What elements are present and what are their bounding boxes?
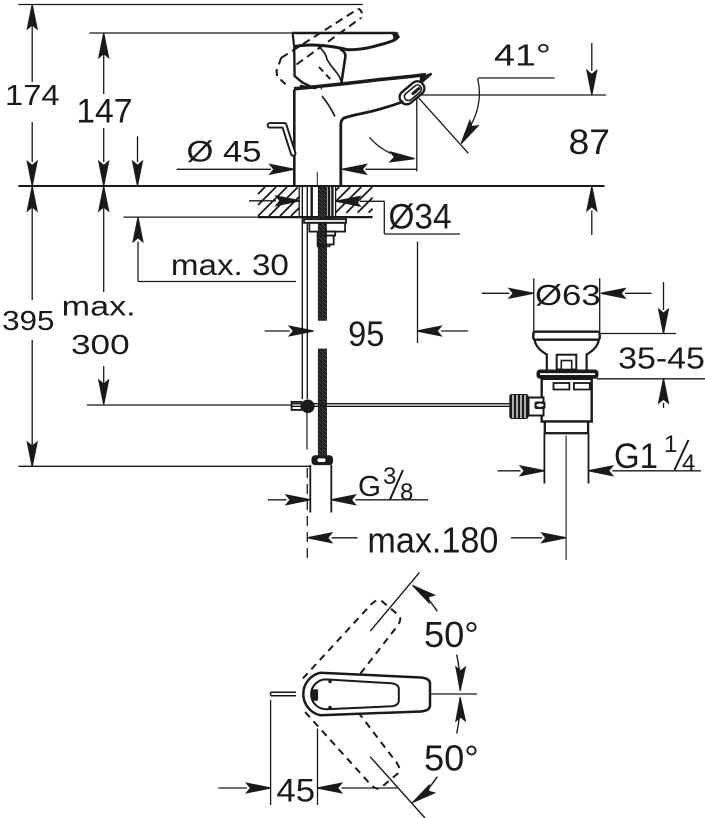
deck bottom line thick [258,216,373,218]
svg-text:4: 4 [682,450,695,477]
braided hose upper segment [318,187,326,320]
dashed raised lever bottom edge [297,18,362,65]
svg-text:147: 147 [76,93,132,131]
aerator dark streak [411,86,421,95]
dashed rotated cap outline [277,58,289,87]
handle outline [303,673,430,715]
svg-text:45: 45 [276,772,315,809]
drain neck right [587,340,599,370]
shank right wall [331,187,333,219]
lever tip filled [391,33,399,41]
max300 bottom extension line (pop-up rod level) [87,404,292,406]
handle cap left edge [294,47,311,87]
41 deg leader underline [478,77,555,79]
ball joint clevis [292,402,302,410]
max.30 bottom arrow and label bracket [133,218,296,282]
svg-text:G: G [358,471,381,503]
spout end face [419,73,432,85]
jet axis line [416,95,468,153]
dimension 147 vertical line with arrows [99,33,109,185]
dimension 87 line at aerator level [417,94,606,96]
dashed handle rotated up 50 [303,594,406,706]
body left edge [293,90,296,186]
hose crimp nut [312,455,334,465]
locknut [309,223,345,232]
tailpipe centerline [565,436,567,561]
svg-text:Ø34: Ø34 [389,197,452,237]
svg-text:Ø 45: Ø 45 [187,136,262,169]
G3/8 connection tube [309,465,311,513]
drain mounting flange [537,370,599,379]
faucet centerline dash [316,172,318,186]
shank step 2 [318,236,334,245]
shank thread line [328,187,331,219]
shank step 1 [318,232,336,236]
max.180 dimension [307,468,566,559]
lever underside [294,36,398,50]
41 deg arc lower segment with arrow at vertical [370,137,415,163]
svg-text:41°: 41° [494,38,551,73]
handle dark mark [312,689,319,700]
svg-text:max.: max. [62,291,136,322]
dashed handle rotated down 50 [303,682,406,794]
spout underside curve and body right edge [341,102,404,186]
aerator inner ring [403,83,423,102]
vertical extension below aerator [416,97,418,172]
drain neck left [535,340,547,370]
tailpipe [543,433,545,483]
dimension 45 [218,700,398,805]
87 top arrow [587,43,597,95]
deck hatching [258,187,373,216]
ball joint [301,400,315,414]
svg-text:174: 174 [5,80,60,112]
pop-up rod double line [301,187,303,399]
upper 50deg arc seg to line [410,581,438,611]
connector clamp detail [535,402,546,410]
dashed rotated cap inner edge [319,67,332,81]
knob connector [529,398,544,416]
dimension 95 [265,326,468,336]
35-45 lower extension and arrow [597,379,705,408]
drain body [542,379,592,422]
body spout crease [322,96,335,117]
50deg upper boundary line [370,573,419,632]
overflow slot right [574,383,590,390]
87 bottom arrow [587,187,597,235]
drain top cap [533,332,599,340]
rod lower end [306,413,308,450]
D63 dimension [482,278,652,331]
lower 50deg arc seg to line [410,777,438,807]
drain plug guide rect [557,355,577,370]
395 bottom reference line [18,465,310,467]
dimension max300 vertical line with arrows [99,187,109,405]
svg-text:395: 395 [2,305,54,336]
svg-text:max.180: max.180 [367,520,498,561]
svg-text:8: 8 [400,479,413,506]
aerator outer capsule [397,79,427,107]
handle dots [328,680,331,683]
svg-text:35-45: 35-45 [618,341,705,376]
svg-text:87: 87 [569,123,611,162]
svg-text:Ø63: Ø63 [535,280,601,312]
svg-text:1: 1 [664,431,677,458]
shank step 3 [318,245,330,247]
handle cap inner dome curve [319,47,343,86]
41 deg arc upper segment with arrow at jet axis [457,78,479,146]
dashed raised lever top edge [281,9,359,58]
svg-text:3: 3 [383,463,396,490]
svg-text:G1: G1 [614,436,658,476]
overflow slot left [554,383,570,390]
G 3/8 dimension arrows [268,495,428,505]
braided hose lower segment [318,349,326,456]
svg-text:300: 300 [71,329,130,360]
50deg lower boundary line [370,757,425,818]
lever rear edge [293,33,295,47]
dimension 395 vertical line with arrows [27,187,37,467]
svg-text:max. 30: max. 30 [171,249,289,282]
body top band [294,75,426,89]
35-45 upper extension and arrow [600,282,676,334]
reference line (lever top level 147) [89,32,398,34]
actuating rod double line [292,403,509,405]
lower 50deg arc seg to centerline [455,697,465,733]
washer under deck [304,219,346,223]
deck bottom line thin extension [123,216,258,218]
svg-text:50°: 50° [424,614,479,655]
upper 50deg arc seg to centerline [455,655,465,691]
max.30 top arrow [133,136,143,185]
handle centerline right [431,693,477,695]
svg-text:50°: 50° [424,738,479,779]
deck hole edges [298,187,300,218]
dimension line D34 [249,196,384,206]
spout tip wedge [420,73,432,84]
dimension 174 vertical line with arrows [27,5,37,186]
knurled adjuster knob [509,394,528,419]
pop-up knob at rear [270,125,293,153]
lever top edge [292,32,397,34]
dashed rotated cap bottom [300,86,322,89]
drain step ring [545,422,588,434]
handle cap right edge [340,49,345,86]
dimension line D45 [177,165,417,175]
G1 1/4 dimension arrows [498,466,701,476]
svg-text:95: 95 [348,315,384,354]
handle inner outline [311,679,399,709]
shank left wall [311,187,313,219]
D34 label bracket [384,201,460,343]
dashed raised lever tip [359,9,363,18]
pop-up rod tip [271,691,296,693]
top reference line (raised lever tip level) [18,4,362,6]
deck / counter top line [18,185,604,187]
